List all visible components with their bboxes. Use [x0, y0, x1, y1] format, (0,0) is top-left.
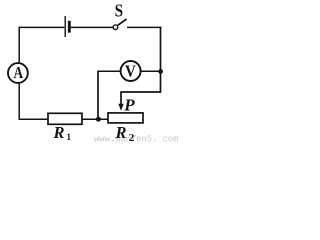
wire voltmeter right lead — [141, 70, 161, 72]
wire right vertical — [160, 27, 162, 72]
svg-text:P: P — [123, 96, 135, 115]
svg-text:1: 1 — [67, 132, 72, 142]
svg-text:R: R — [115, 123, 127, 142]
wire left vertical (bottom) — [19, 83, 48, 120]
svg-text:www.manfen5. com: www.manfen5. com — [94, 134, 178, 143]
battery long thin plate — [64, 16, 66, 37]
svg-text:S: S — [115, 1, 124, 21]
wire voltmeter left lead — [97, 70, 120, 72]
node junction dot (R1-R2) — [96, 117, 101, 122]
battery short thick plate — [68, 21, 71, 33]
switch S pivot circle — [113, 25, 118, 30]
switch blade — [117, 19, 126, 26]
svg-text:2: 2 — [129, 132, 135, 143]
ammeter A circle — [8, 63, 28, 83]
node junction dot (V right) — [158, 69, 163, 74]
wire switch to top-right corner — [127, 26, 161, 28]
wire R1 to node — [82, 118, 109, 120]
rheostat R2 box — [108, 113, 143, 123]
svg-text:A: A — [13, 63, 23, 82]
resistor R1 box — [48, 113, 82, 124]
slider arrow P head — [118, 104, 123, 111]
voltmeter V circle — [121, 61, 141, 81]
wire top-left horizontal (battery left lead) — [19, 26, 64, 28]
wire battery to switch — [71, 26, 113, 28]
wire left vertical (top) — [18, 27, 20, 64]
svg-text:R: R — [53, 123, 65, 142]
svg-text:V: V — [125, 63, 136, 81]
wire voltmeter left branch down to node — [97, 71, 99, 118]
wire right vertical to slider corner — [121, 71, 161, 105]
